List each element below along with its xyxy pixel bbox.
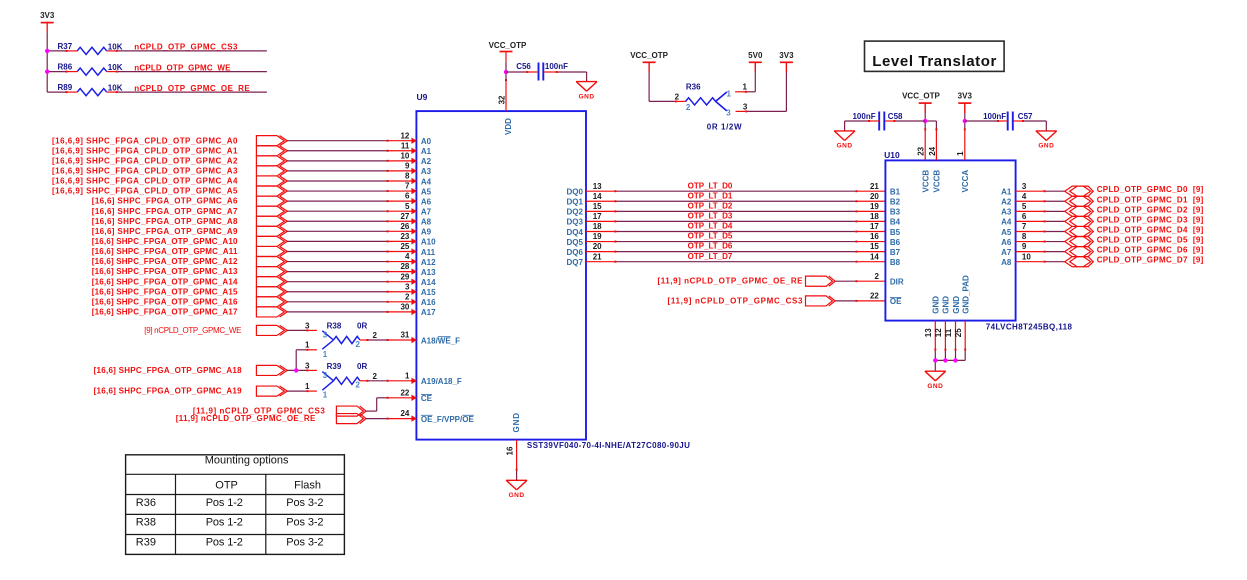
svg-text:DQ7: DQ7 (566, 258, 583, 267)
svg-text:DIR: DIR (890, 278, 904, 287)
svg-text:OTP_LT_D6: OTP_LT_D6 (688, 242, 733, 251)
svg-text:1: 1 (323, 390, 328, 399)
svg-text:[16,6] SHPC_FPGA_OTP_GPMC_A13: [16,6] SHPC_FPGA_OTP_GPMC_A13 (92, 267, 238, 276)
svg-text:OTP_LT_D5: OTP_LT_D5 (688, 232, 733, 241)
svg-text:A2: A2 (1001, 198, 1012, 207)
svg-text:A14: A14 (421, 278, 436, 287)
svg-text:OTP_LT_D1: OTP_LT_D1 (688, 191, 733, 200)
svg-text:B6: B6 (890, 238, 901, 247)
svg-text:[16,6] SHPC_FPGA_OTP_GPMC_A7: [16,6] SHPC_FPGA_OTP_GPMC_A7 (92, 207, 238, 216)
svg-text:C57: C57 (1018, 112, 1033, 121)
svg-text:DQ3: DQ3 (566, 218, 583, 227)
svg-text:CPLD_OTP_GPMC_D6 [9]: CPLD_OTP_GPMC_D6 [9] (1097, 246, 1204, 255)
svg-text:GND: GND (509, 492, 525, 499)
svg-text:16: 16 (870, 232, 879, 241)
svg-text:[11,9] nCPLD_OTP_GPMC_OE_RE: [11,9] nCPLD_OTP_GPMC_OE_RE (176, 414, 316, 423)
svg-text:A3: A3 (421, 167, 432, 176)
svg-text:10: 10 (400, 151, 409, 160)
svg-text:[16,6,9] SHPC_FPGA_CPLD_OTP_GP: [16,6,9] SHPC_FPGA_CPLD_OTP_GPMC_A4 (52, 177, 238, 186)
svg-text:5V0: 5V0 (748, 51, 763, 60)
svg-text:[16,6,9] SHPC_FPGA_CPLD_OTP_GP: [16,6,9] SHPC_FPGA_CPLD_OTP_GPMC_A2 (52, 156, 238, 165)
svg-text:R89: R89 (58, 83, 73, 92)
svg-text:DQ4: DQ4 (566, 228, 583, 237)
svg-text:7: 7 (1022, 222, 1027, 231)
svg-text:OE_F/VPP/OE: OE_F/VPP/OE (421, 415, 475, 424)
svg-text:[16,6] SHPC_FPGA_OTP_GPMC_A16: [16,6] SHPC_FPGA_OTP_GPMC_A16 (92, 297, 238, 306)
svg-text:17: 17 (870, 222, 879, 231)
svg-text:14: 14 (593, 192, 602, 201)
svg-text:VCCB: VCCB (933, 170, 942, 193)
svg-text:3: 3 (323, 331, 328, 340)
svg-text:10K: 10K (108, 63, 123, 72)
svg-text:18: 18 (593, 222, 602, 231)
svg-text:A8: A8 (421, 218, 432, 227)
svg-text:U10: U10 (884, 150, 900, 160)
svg-text:A1: A1 (421, 147, 432, 156)
svg-text:2: 2 (356, 340, 361, 349)
svg-text:12: 12 (934, 328, 943, 337)
svg-text:19: 19 (593, 232, 602, 241)
svg-text:17: 17 (593, 212, 602, 221)
svg-text:2: 2 (373, 331, 378, 340)
svg-text:DQ2: DQ2 (566, 208, 583, 217)
svg-text:CPLD_OTP_GPMC_D2 [9]: CPLD_OTP_GPMC_D2 [9] (1097, 205, 1204, 214)
svg-text:1: 1 (956, 151, 965, 156)
svg-text:B2: B2 (890, 198, 901, 207)
svg-text:9: 9 (1022, 242, 1027, 251)
svg-text:31: 31 (400, 331, 409, 340)
svg-text:A9: A9 (421, 228, 432, 237)
svg-text:GND: GND (579, 93, 595, 100)
svg-text:R86: R86 (58, 63, 73, 72)
svg-text:74LVCH8T245BQ,118: 74LVCH8T245BQ,118 (986, 322, 1073, 331)
svg-text:25: 25 (954, 328, 963, 337)
svg-text:3: 3 (305, 361, 310, 370)
svg-text:12: 12 (400, 131, 409, 140)
svg-text:[11,9] nCPLD_OTP_GPMC_OE_RE: [11,9] nCPLD_OTP_GPMC_OE_RE (658, 277, 804, 286)
svg-text:R39: R39 (327, 362, 342, 371)
svg-text:DQ0: DQ0 (566, 188, 583, 197)
svg-text:24: 24 (400, 409, 409, 418)
svg-text:20: 20 (870, 192, 879, 201)
svg-text:[16,6] SHPC_FPGA_OTP_GPMC_A8: [16,6] SHPC_FPGA_OTP_GPMC_A8 (92, 217, 238, 226)
svg-text:B1: B1 (890, 188, 901, 197)
svg-text:R36: R36 (136, 497, 156, 509)
svg-text:CPLD_OTP_GPMC_D0 [9]: CPLD_OTP_GPMC_D0 [9] (1097, 185, 1204, 194)
svg-text:OTP_LT_D3: OTP_LT_D3 (688, 212, 733, 221)
svg-text:GND: GND (1038, 143, 1054, 150)
svg-text:2: 2 (686, 103, 691, 112)
svg-text:DQ5: DQ5 (566, 238, 583, 247)
svg-text:nCPLD_OTP_GPMC_CS3: nCPLD_OTP_GPMC_CS3 (134, 43, 238, 52)
svg-text:OTP_LT_D2: OTP_LT_D2 (688, 201, 733, 210)
svg-text:C56: C56 (516, 62, 531, 71)
svg-text:A13: A13 (421, 268, 436, 277)
svg-text:[16,6] SHPC_FPGA_OTP_GPMC_A12: [16,6] SHPC_FPGA_OTP_GPMC_A12 (92, 257, 238, 266)
svg-text:3V3: 3V3 (40, 11, 55, 20)
svg-text:6: 6 (1022, 212, 1027, 221)
svg-text:8: 8 (1022, 232, 1027, 241)
svg-text:7: 7 (405, 182, 410, 191)
svg-text:2: 2 (373, 372, 378, 381)
svg-text:A15: A15 (421, 288, 436, 297)
svg-text:29: 29 (400, 272, 409, 281)
svg-text:GND: GND (512, 412, 521, 432)
svg-text:1: 1 (323, 350, 328, 359)
svg-text:CPLD_OTP_GPMC_D7 [9]: CPLD_OTP_GPMC_D7 [9] (1097, 256, 1204, 265)
svg-text:A4: A4 (421, 177, 432, 186)
svg-text:[16,6] SHPC_FPGA_OTP_GPMC_A17: [16,6] SHPC_FPGA_OTP_GPMC_A17 (92, 307, 238, 316)
svg-text:OTP: OTP (215, 479, 238, 491)
svg-text:1: 1 (743, 82, 748, 91)
svg-text:3: 3 (405, 282, 410, 291)
svg-text:GND: GND (942, 296, 951, 314)
svg-text:28: 28 (400, 262, 409, 271)
svg-text:R36: R36 (686, 83, 701, 92)
svg-text:10K: 10K (108, 42, 123, 51)
svg-text:OTP_LT_D0: OTP_LT_D0 (688, 181, 733, 190)
svg-text:0R: 0R (357, 362, 367, 371)
svg-text:[16,6,9] SHPC_FPGA_CPLD_OTP_GP: [16,6,9] SHPC_FPGA_CPLD_OTP_GPMC_A0 (52, 136, 238, 145)
svg-text:24: 24 (928, 146, 937, 155)
svg-text:U9: U9 (417, 92, 428, 102)
svg-text:Flash: Flash (294, 479, 321, 491)
svg-text:100nF: 100nF (852, 112, 875, 121)
svg-text:Pos 1-2: Pos 1-2 (206, 517, 243, 529)
svg-text:B7: B7 (890, 248, 901, 257)
svg-text:2: 2 (356, 381, 361, 390)
svg-text:21: 21 (870, 182, 879, 191)
svg-text:VCCA: VCCA (961, 170, 970, 193)
svg-text:Pos 1-2: Pos 1-2 (206, 536, 243, 548)
svg-text:3V3: 3V3 (779, 51, 794, 60)
svg-text:A7: A7 (1001, 248, 1012, 257)
svg-text:3: 3 (1022, 182, 1027, 191)
svg-text:A6: A6 (421, 197, 432, 206)
svg-text:6: 6 (405, 192, 410, 201)
svg-text:VCC_OTP: VCC_OTP (489, 41, 527, 50)
svg-text:[16,6] SHPC_FPGA_OTP_GPMC_A6: [16,6] SHPC_FPGA_OTP_GPMC_A6 (92, 197, 238, 206)
svg-text:VCCB: VCCB (922, 170, 931, 193)
svg-text:[16,6] SHPC_FPGA_OTP_GPMC_A10: [16,6] SHPC_FPGA_OTP_GPMC_A10 (92, 237, 238, 246)
svg-text:nCPLD_OTP_GPMC_WE: nCPLD_OTP_GPMC_WE (134, 63, 231, 72)
svg-text:B3: B3 (890, 208, 901, 217)
svg-text:14: 14 (870, 252, 879, 261)
svg-text:1: 1 (405, 371, 410, 380)
svg-text:GND: GND (932, 296, 941, 314)
svg-text:GND: GND (952, 296, 961, 314)
svg-text:GND_PAD: GND_PAD (962, 275, 971, 314)
svg-text:A7: A7 (421, 207, 432, 216)
svg-text:[16,6] SHPC_FPGA_OTP_GPMC_A11: [16,6] SHPC_FPGA_OTP_GPMC_A11 (92, 247, 238, 256)
svg-text:Level Translator: Level Translator (872, 53, 996, 70)
svg-text:2: 2 (874, 272, 879, 281)
svg-text:A11: A11 (421, 248, 436, 257)
svg-text:SST39VF040-70-4I-NHE/AT27C080-: SST39VF040-70-4I-NHE/AT27C080-90JU (527, 441, 690, 450)
svg-text:10K: 10K (108, 84, 123, 93)
svg-text:A5: A5 (1001, 228, 1012, 237)
svg-text:A16: A16 (421, 298, 436, 307)
svg-text:16: 16 (505, 446, 514, 455)
svg-text:R38: R38 (136, 517, 156, 529)
svg-text:100nF: 100nF (983, 112, 1006, 121)
svg-text:22: 22 (400, 388, 409, 397)
svg-text:CPLD_OTP_GPMC_D3 [9]: CPLD_OTP_GPMC_D3 [9] (1097, 215, 1204, 224)
svg-text:CPLD_OTP_GPMC_D5 [9]: CPLD_OTP_GPMC_D5 [9] (1097, 236, 1204, 245)
svg-text:DQ6: DQ6 (566, 248, 583, 257)
svg-text:[11,9] nCPLD_OTP_GPMC_CS3: [11,9] nCPLD_OTP_GPMC_CS3 (668, 296, 804, 305)
svg-text:[16,6] SHPC_FPGA_OTP_GPMC_A15: [16,6] SHPC_FPGA_OTP_GPMC_A15 (92, 287, 238, 296)
svg-text:3: 3 (743, 103, 748, 112)
svg-text:A0: A0 (421, 137, 432, 146)
svg-text:21: 21 (593, 252, 602, 261)
svg-text:11: 11 (401, 141, 410, 150)
svg-text:18: 18 (870, 212, 879, 221)
svg-text:4: 4 (1022, 192, 1027, 201)
svg-text:23: 23 (400, 232, 409, 241)
svg-text:A19/A18_F: A19/A18_F (421, 377, 462, 386)
svg-text:Mounting options: Mounting options (205, 455, 289, 467)
svg-text:A1: A1 (1001, 188, 1012, 197)
svg-text:9: 9 (405, 162, 410, 171)
svg-text:25: 25 (400, 242, 409, 251)
svg-text:A5: A5 (421, 187, 432, 196)
svg-text:19: 19 (870, 202, 879, 211)
svg-text:3V3: 3V3 (958, 92, 973, 101)
svg-text:3: 3 (305, 321, 310, 330)
svg-text:23: 23 (916, 146, 925, 155)
svg-text:[16,6] SHPC_FPGA_OTP_GPMC_A18: [16,6] SHPC_FPGA_OTP_GPMC_A18 (94, 366, 243, 375)
svg-text:3: 3 (726, 109, 731, 118)
svg-text:GND: GND (837, 143, 853, 150)
svg-text:0R 1/2W: 0R 1/2W (707, 122, 742, 131)
svg-text:27: 27 (400, 212, 409, 221)
svg-text:11: 11 (944, 328, 953, 337)
svg-text:1: 1 (305, 341, 310, 350)
svg-text:CPLD_OTP_GPMC_D4 [9]: CPLD_OTP_GPMC_D4 [9] (1097, 225, 1204, 234)
svg-text:Pos 3-2: Pos 3-2 (286, 536, 323, 548)
svg-text:Pos 3-2: Pos 3-2 (286, 497, 323, 509)
svg-text:GND: GND (927, 383, 943, 390)
svg-text:Pos 1-2: Pos 1-2 (206, 497, 243, 509)
svg-text:A4: A4 (1001, 218, 1012, 227)
svg-text:VDD: VDD (504, 118, 513, 135)
svg-text:DQ1: DQ1 (566, 198, 583, 207)
svg-text:R38: R38 (327, 321, 342, 330)
svg-text:8: 8 (405, 172, 410, 181)
svg-text:nCPLD_OTP_GPMC_OE_RE: nCPLD_OTP_GPMC_OE_RE (134, 84, 250, 93)
svg-text:VCC_OTP: VCC_OTP (902, 92, 940, 101)
svg-text:A18/WE_F: A18/WE_F (421, 336, 460, 345)
svg-text:13: 13 (924, 328, 933, 337)
svg-text:A8: A8 (1001, 258, 1012, 267)
svg-text:R37: R37 (58, 42, 73, 51)
svg-text:4: 4 (405, 252, 410, 261)
svg-text:CE: CE (421, 394, 433, 403)
svg-text:100nF: 100nF (545, 62, 568, 71)
svg-text:32: 32 (497, 95, 506, 104)
svg-text:B5: B5 (890, 228, 901, 237)
svg-text:VCC_OTP: VCC_OTP (630, 51, 668, 60)
svg-text:C58: C58 (888, 112, 903, 121)
svg-text:5: 5 (405, 202, 410, 211)
svg-text:3: 3 (323, 371, 328, 380)
svg-text:0R: 0R (357, 321, 367, 330)
svg-text:A10: A10 (421, 238, 436, 247)
svg-text:B8: B8 (890, 258, 901, 267)
svg-text:OTP_LT_D4: OTP_LT_D4 (688, 222, 733, 231)
svg-text:[9] nCPLD_OTP_GPMC_WE: [9] nCPLD_OTP_GPMC_WE (144, 326, 241, 335)
svg-text:[16,6,9] SHPC_FPGA_CPLD_OTP_GP: [16,6,9] SHPC_FPGA_CPLD_OTP_GPMC_A5 (52, 187, 238, 196)
svg-text:26: 26 (400, 222, 409, 231)
svg-text:13: 13 (593, 182, 602, 191)
svg-text:[16,6] SHPC_FPGA_OTP_GPMC_A14: [16,6] SHPC_FPGA_OTP_GPMC_A14 (92, 277, 238, 286)
svg-text:A3: A3 (1001, 208, 1012, 217)
svg-text:R39: R39 (136, 536, 156, 548)
svg-text:CPLD_OTP_GPMC_D1 [9]: CPLD_OTP_GPMC_D1 [9] (1097, 195, 1204, 204)
svg-text:OTP_LT_D7: OTP_LT_D7 (688, 252, 733, 261)
svg-text:A6: A6 (1001, 238, 1012, 247)
svg-text:10: 10 (1022, 252, 1031, 261)
svg-text:1: 1 (727, 89, 732, 98)
svg-text:1: 1 (305, 382, 310, 391)
svg-text:OE: OE (890, 297, 902, 306)
svg-text:[16,6] SHPC_FPGA_OTP_GPMC_A9: [16,6] SHPC_FPGA_OTP_GPMC_A9 (92, 227, 238, 236)
svg-text:2: 2 (675, 93, 680, 102)
svg-text:Pos 3-2: Pos 3-2 (286, 517, 323, 529)
svg-text:[16,6] SHPC_FPGA_OTP_GPMC_A19: [16,6] SHPC_FPGA_OTP_GPMC_A19 (94, 387, 243, 396)
svg-text:15: 15 (593, 202, 602, 211)
svg-text:A17: A17 (421, 308, 436, 317)
svg-text:[16,6,9] SHPC_FPGA_CPLD_OTP_GP: [16,6,9] SHPC_FPGA_CPLD_OTP_GPMC_A1 (52, 146, 238, 155)
svg-text:B4: B4 (890, 218, 901, 227)
svg-text:22: 22 (870, 292, 879, 301)
svg-text:15: 15 (870, 242, 879, 251)
svg-text:5: 5 (1022, 202, 1027, 211)
svg-text:30: 30 (400, 302, 409, 311)
svg-text:2: 2 (405, 292, 410, 301)
svg-text:[16,6,9] SHPC_FPGA_CPLD_OTP_GP: [16,6,9] SHPC_FPGA_CPLD_OTP_GPMC_A3 (52, 167, 238, 176)
svg-text:20: 20 (593, 242, 602, 251)
svg-text:A12: A12 (421, 258, 436, 267)
svg-text:A2: A2 (421, 157, 432, 166)
